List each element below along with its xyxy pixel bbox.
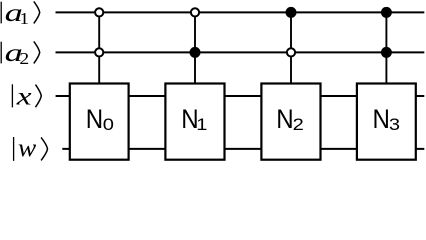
- wire w: [62, 148, 424, 150]
- filled control N1 a2: [190, 47, 201, 58]
- svg-text:N: N: [86, 104, 103, 134]
- label |a2>: [1, 40, 40, 68]
- control wire N0: [98, 12, 100, 85]
- svg-text:w: w: [18, 135, 37, 162]
- svg-text:N: N: [373, 104, 390, 134]
- svg-text:x: x: [15, 83, 31, 110]
- svg-text:0: 0: [103, 115, 114, 134]
- wire x: [56, 95, 425, 97]
- gate box N2: [261, 84, 320, 160]
- wire a1: [56, 11, 425, 13]
- open control N1 a1: [191, 8, 199, 16]
- filled control N2 a1: [286, 7, 297, 18]
- filled control N3 a2: [381, 47, 392, 58]
- wire a2: [56, 51, 425, 53]
- label |w>: [14, 135, 48, 162]
- control wire N1: [194, 12, 196, 85]
- svg-text:1: 1: [196, 115, 207, 134]
- gate box N1: [165, 84, 224, 160]
- svg-text:1: 1: [19, 9, 29, 28]
- svg-text:N: N: [276, 104, 293, 134]
- gate box N3: [357, 84, 416, 160]
- gate box N0: [70, 84, 129, 160]
- open control N0 a1: [95, 8, 103, 16]
- label |a1>: [1, 0, 40, 28]
- svg-text:2: 2: [293, 115, 304, 134]
- open control N0 a2: [95, 48, 103, 56]
- svg-text:3: 3: [389, 115, 400, 134]
- svg-text:2: 2: [19, 49, 29, 68]
- label |x>: [12, 83, 41, 110]
- filled control N3 a1: [381, 7, 392, 18]
- control wire N2: [290, 12, 292, 85]
- control wire N3: [385, 12, 387, 85]
- open control N2 a2: [287, 48, 295, 56]
